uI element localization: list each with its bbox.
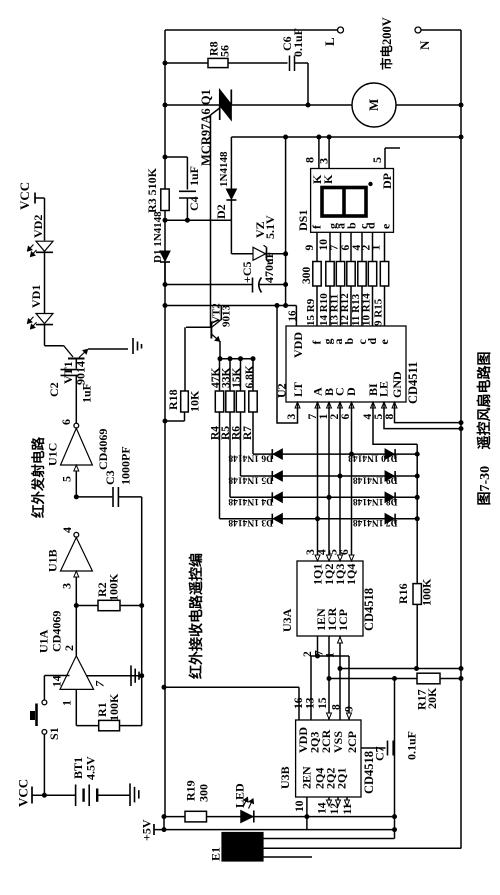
wire: clock line1 to right rail — [340, 668, 461, 670]
wire: D2 column — [230, 137, 232, 189]
leads from resistors to CD4511 with labels 15 R9 .. 9 R15 — [316, 286, 318, 326]
svg-text:8: 8 — [331, 704, 343, 710]
IC U3B CD4518 — [296, 720, 361, 797]
svg-text:5.1V: 5.1V — [263, 215, 277, 239]
wire: LE pin to right rail — [384, 402, 461, 429]
U3B bottom pins 2Q4 2Q2 2Q1 arrows with numbers 14 12 11 — [328, 797, 330, 800]
svg-text:12: 12 — [329, 803, 341, 815]
svg-text:e: e — [379, 223, 393, 229]
svg-text:1: 1 — [60, 700, 74, 706]
wire: E1 pin2 to right rail bottom — [263, 847, 461, 849]
svg-text:D1 1N4148: D1 1N4148 — [152, 211, 164, 263]
svg-text:d: d — [364, 222, 378, 229]
svg-text:56: 56 — [218, 45, 232, 57]
wire: 2EN pin down — [306, 797, 308, 830]
svg-text:10K: 10K — [188, 390, 202, 412]
resistor R5 33K — [229, 359, 231, 391]
svg-text:+C5: +C5 — [240, 261, 254, 283]
diode D2 1N4148 — [226, 189, 236, 199]
svg-text:D3 1N4148: D3 1N4148 — [228, 517, 273, 527]
wire: row D4/D8 — [230, 496, 417, 498]
svg-text:11: 11 — [342, 803, 354, 814]
wire: input columns A B C D down to U3A — [317, 402, 319, 561]
svg-text:CD4518: CD4518 — [362, 588, 376, 631]
svg-text:9013: 9013 — [221, 305, 233, 328]
node: px286 column top — [283, 135, 288, 140]
svg-text:VCC: VCC — [17, 182, 32, 210]
resistor R19 300 — [185, 811, 207, 822]
svg-text:LE: LE — [377, 381, 391, 397]
svg-text:1uF: 1uF — [80, 383, 94, 403]
svg-text:3: 3 — [286, 414, 298, 420]
wire: U1C input — [75, 465, 77, 497]
svg-text:300: 300 — [197, 784, 211, 802]
svg-text:470uF: 470uF — [262, 251, 276, 283]
svg-text:C2: C2 — [47, 382, 61, 397]
node: LT column junction — [275, 303, 280, 308]
svg-text:5: 5 — [370, 157, 384, 163]
IC U2 CD4511 — [286, 326, 406, 402]
wire: 1CP/VSS column — [339, 636, 341, 720]
ground (U1A pin7) — [130, 665, 132, 686]
wire: 2Q3-2CP jog — [311, 655, 349, 657]
svg-text:C4: C4 — [187, 196, 201, 211]
diode D9 1N4148 — [385, 471, 394, 481]
svg-text:D7 1N4148: D7 1N4148 — [353, 517, 398, 527]
resistor R8 56 — [208, 58, 228, 67]
LED VD1 — [36, 314, 53, 324]
wire: top wire to L terminal — [165, 29, 337, 31]
svg-text:VD1: VD1 — [29, 285, 43, 308]
svg-text:红外接收电路遥控编: 红外接收电路遥控编 — [188, 553, 205, 679]
wire: R3/C4 bottom wire — [165, 219, 231, 221]
node: C6 junction — [306, 103, 311, 108]
node: C5 to px286 column — [283, 282, 288, 287]
svg-text:14: 14 — [52, 675, 64, 687]
node: rail-motor junction — [459, 103, 464, 108]
terminal N — [415, 27, 421, 33]
svg-text:S1: S1 — [47, 727, 61, 740]
node: rail R18 junction — [163, 419, 168, 424]
svg-text:9 R15: 9 R15 — [373, 298, 385, 326]
wire: row D3/D7 — [220, 518, 418, 520]
svg-text:+5V: +5V — [140, 819, 154, 841]
ground (battery) — [129, 783, 131, 806]
zener diode VZ 5.1V — [253, 247, 266, 260]
wire: D2 to zener — [230, 220, 232, 254]
node: rail C5 wire — [163, 282, 168, 287]
svg-text:CD4069: CD4069 — [50, 611, 64, 652]
node: row to common — [415, 516, 420, 521]
svg-text:R18: R18 — [166, 389, 180, 410]
diode D7 1N4148 — [385, 514, 394, 524]
svg-text:VSS: VSS — [331, 731, 345, 753]
svg-text:VDD: VDD — [291, 332, 305, 358]
wire: Q1 anode wire — [165, 104, 220, 106]
svg-text:10: 10 — [294, 800, 306, 812]
svg-text:6: 6 — [339, 549, 351, 555]
node: row to common — [415, 474, 420, 479]
svg-text:N: N — [417, 40, 432, 50]
svg-text:2Q1: 2Q1 — [335, 768, 349, 789]
svg-text:VCC: VCC — [16, 779, 31, 807]
svg-text:图7-30: 图7-30 — [477, 466, 493, 506]
wire: BI pin to diode common — [373, 402, 417, 444]
svg-text:0.1uF: 0.1uF — [291, 28, 305, 57]
capacitor C6 0.1uF — [289, 56, 291, 72]
svg-text:7: 7 — [93, 680, 107, 687]
switch S1 — [42, 700, 47, 705]
wire: R8 branch — [165, 62, 208, 64]
wire: C4/R3 top wire — [165, 156, 187, 158]
wire: row D5/D9 — [241, 475, 418, 477]
node: row to column — [338, 474, 343, 479]
svg-text:14: 14 — [317, 802, 329, 814]
resistor R16 100K — [413, 584, 421, 605]
wire: GND pin to right rail — [395, 402, 462, 423]
svg-text:15 R9: 15 R9 — [305, 298, 317, 326]
svg-text:6: 6 — [340, 414, 352, 420]
svg-text:1CP: 1CP — [336, 609, 350, 631]
IR receiver module E1 — [222, 833, 263, 862]
svg-text:13: 13 — [305, 697, 317, 709]
svg-text:15K: 15K — [231, 368, 243, 389]
node: zener to px286 column — [283, 251, 288, 256]
svg-text:D8 1N4148: D8 1N4148 — [353, 496, 398, 506]
svg-text:16: 16 — [293, 697, 305, 709]
svg-text:6.8K: 6.8K — [244, 365, 256, 388]
svg-text:L: L — [322, 37, 337, 46]
diode D10 1N4148 — [385, 449, 394, 459]
svg-text:100K: 100K — [107, 693, 121, 721]
node: row to column — [327, 495, 332, 500]
inverter U1A CD4069 — [75, 606, 77, 656]
wire: VDD supply wire py305 — [165, 305, 296, 307]
wire: diode common column to R16 — [416, 444, 418, 583]
svg-text:遥控风扇电路图: 遥控风扇电路图 — [476, 352, 493, 450]
wire: 1EN pin down to jog — [317, 636, 319, 656]
display decimal point — [368, 182, 372, 186]
svg-text:2CP: 2CP — [345, 731, 359, 753]
diode D5 1N4148 — [273, 471, 282, 481]
svg-text:DS1: DS1 — [296, 210, 310, 231]
svg-text:D2: D2 — [214, 204, 228, 219]
wire: N to right rail — [421, 29, 461, 31]
svg-text:U3A: U3A — [280, 608, 294, 632]
wire: VT2 base wire — [186, 326, 211, 328]
node: display K pin 8 — [316, 135, 321, 140]
thyristor Q1 MCR97A6 (triac symbol) — [220, 90, 232, 105]
node: rail py220 — [163, 218, 168, 223]
wire: U1B input — [75, 571, 77, 606]
wire: E1 pin1 to C7 node — [263, 838, 395, 840]
svg-text:R7: R7 — [242, 426, 254, 440]
wire: +5V bottom wire B — [154, 829, 395, 831]
svg-text:300: 300 — [301, 267, 313, 285]
wire: Q1 gate — [211, 108, 220, 115]
svg-text:e: e — [377, 339, 391, 345]
svg-text:CD4069: CD4069 — [96, 429, 110, 470]
node: row to common — [415, 452, 420, 457]
wire: feedback column — [141, 497, 143, 726]
resistor R6 15K — [240, 359, 242, 391]
motor M — [352, 83, 396, 127]
wire: 1CR column to U3B 2CR — [328, 636, 330, 720]
wire: battery to ground — [97, 794, 130, 796]
svg-text:1: 1 — [371, 245, 383, 251]
node: display K pin 3 — [327, 135, 332, 140]
wire: row D6/D10 — [253, 453, 417, 455]
resistors R9-R15 300 ohm — [313, 262, 321, 287]
wire: motor to right rail — [396, 104, 461, 106]
wire: VCC to battery — [32, 794, 76, 796]
wire: U1A pin14 to S1 — [44, 675, 69, 677]
svg-text:D9 1N4148: D9 1N4148 — [353, 475, 398, 485]
svg-text:8: 8 — [303, 157, 317, 163]
wire: left +5V rail (top segment) — [164, 30, 166, 157]
svg-text:7: 7 — [329, 245, 341, 251]
svg-text:100K: 100K — [420, 578, 434, 606]
display bottom pin leads with numbers 9 10 7 6 4 2 1 — [316, 232, 318, 261]
svg-text:GND: GND — [390, 371, 404, 398]
wire: px286 column — [285, 137, 287, 306]
svg-text:16: 16 — [287, 310, 299, 322]
wire: LT pin to VDD wire — [277, 306, 298, 424]
svg-text:10 R14: 10 R14 — [361, 293, 373, 326]
wire: left rail bottom hook — [163, 817, 165, 830]
diode D6 1N4148 — [273, 449, 282, 459]
node: rail junction R8 wire — [163, 61, 168, 66]
svg-text:市电200V: 市电200V — [379, 17, 394, 70]
wire: CD4511 pin16 lead — [295, 306, 297, 327]
display pins K 8 3 and DP 5 — [318, 137, 320, 169]
diode D4 1N4148 — [273, 492, 282, 502]
diode D3 1N4148 — [273, 514, 282, 524]
wire: left rail middle segment — [164, 262, 166, 817]
svg-text:M: M — [366, 99, 381, 111]
wire: C5 branch — [165, 284, 252, 286]
svg-text:15: 15 — [317, 697, 329, 709]
terminal VCC (battery) — [31, 787, 33, 804]
resistor R17 20K — [417, 673, 440, 684]
svg-text:D5 1N4148: D5 1N4148 — [228, 475, 273, 485]
IC U3A CD4518 — [297, 561, 363, 636]
7-segment display DS1 — [311, 169, 394, 233]
wire: U1A input to R1 — [75, 689, 77, 725]
svg-text:R16: R16 — [396, 583, 410, 604]
svg-text:100K: 100K — [107, 573, 121, 601]
svg-text:2: 2 — [62, 645, 76, 651]
LED indicator — [241, 811, 253, 823]
svg-text:5: 5 — [328, 549, 340, 555]
node: rail py157 — [163, 155, 168, 160]
svg-text:1: 1 — [325, 652, 337, 658]
svg-text:D4 1N4148: D4 1N4148 — [228, 496, 273, 506]
battery BT1 4.5V — [75, 785, 77, 807]
svg-text:4: 4 — [60, 527, 74, 533]
svg-text:3: 3 — [60, 583, 74, 589]
capacitor C7 0.1uF — [361, 747, 386, 749]
resistor R2 100K — [76, 605, 98, 607]
svg-text:红外发射电路: 红外发射电路 — [30, 437, 46, 518]
svg-text:1000PF: 1000PF — [119, 446, 133, 485]
svg-text:1N4148: 1N4148 — [218, 151, 230, 187]
svg-text:3: 3 — [317, 158, 331, 164]
svg-text:R6: R6 — [231, 426, 243, 440]
capacitor C4 1uF — [179, 190, 196, 192]
wire: E1 pin3 stub — [263, 856, 312, 858]
node: C4 bottom — [185, 218, 190, 223]
capacitor C2 1uF — [75, 359, 77, 369]
svg-text:0.1uF: 0.1uF — [405, 731, 419, 760]
wire: +5V feed wire A with R19 and LED — [164, 816, 395, 818]
U3A top pin arrows and numbers 3 4 5 6 — [315, 555, 320, 561]
svg-text:DP: DP — [380, 173, 394, 189]
resistor R18 10K — [184, 327, 186, 391]
wire: U1A ground wire pin7 — [86, 675, 142, 677]
svg-text:9: 9 — [344, 706, 356, 712]
wire: reset line2 with R17 — [329, 678, 417, 680]
svg-text:C3: C3 — [103, 470, 117, 485]
svg-text:K: K — [321, 174, 335, 184]
svg-text:9: 9 — [304, 245, 316, 251]
svg-text:VD2: VD2 — [31, 215, 45, 238]
svg-text:LT: LT — [291, 382, 305, 397]
wire: C7 column — [394, 679, 396, 830]
node: row to column — [315, 516, 320, 521]
svg-text:U1B: U1B — [46, 549, 60, 572]
node: rail py305 — [163, 303, 168, 308]
svg-text:LED: LED — [233, 783, 247, 808]
node: px286 column bottom — [283, 303, 288, 308]
svg-text:U3B: U3B — [278, 766, 292, 789]
node: row to common — [415, 495, 420, 500]
svg-text:1uF: 1uF — [187, 166, 201, 186]
node: rail junction Q1 wire — [163, 103, 168, 108]
capacitor C5 470uF (polarized) — [252, 278, 254, 293]
resistor R3 510K (inline on rail) — [164, 157, 166, 189]
transistor VT2 9013 — [210, 322, 212, 339]
svg-text:3: 3 — [305, 549, 317, 555]
node: row to column — [349, 452, 354, 457]
terminal L — [338, 27, 344, 33]
svg-text:U1A: U1A — [37, 629, 51, 653]
svg-text:R19: R19 — [184, 780, 198, 801]
svg-text:C7: C7 — [373, 746, 387, 761]
wire: +5V to U3B VDD — [164, 686, 299, 688]
node: rail-display wire — [459, 135, 464, 140]
svg-text:E1: E1 — [209, 847, 223, 861]
terminal +5V — [153, 824, 155, 835]
svg-text:D: D — [344, 387, 358, 396]
wire: VT2 emitter row — [220, 358, 253, 360]
resistor R1 100K — [99, 720, 120, 730]
LED VD2 — [36, 241, 53, 251]
svg-text:5: 5 — [60, 476, 74, 482]
diode D1 1N4148 (inline on rail) — [164, 220, 166, 250]
inverter U1C CD4069 — [74, 423, 79, 428]
ground (VT1 emitter) — [132, 338, 134, 354]
terminal VCC (transmitter top) — [34, 193, 36, 204]
svg-text:6: 6 — [59, 419, 73, 425]
transistor VT1 9014 — [45, 345, 64, 347]
svg-text:1Q4: 1Q4 — [344, 564, 358, 585]
svg-text:20K: 20K — [425, 687, 439, 709]
capacitor C3 1000PF — [76, 496, 112, 498]
svg-text:U1C: U1C — [46, 443, 60, 466]
inverter U1B CD4069 — [74, 532, 79, 537]
svg-text:D10 1N4148: D10 1N4148 — [348, 453, 398, 463]
resistor R4 47K — [219, 359, 221, 391]
diode D8 1N4148 — [385, 492, 394, 502]
svg-text:2EN: 2EN — [300, 766, 314, 789]
CD4511 bottom pin leads with arrows and numbers — [295, 402, 300, 408]
svg-text:b: b — [342, 338, 356, 345]
svg-text:4.5V: 4.5V — [84, 756, 98, 780]
svg-text:D6 1N4148: D6 1N4148 — [228, 453, 273, 463]
wire: right rail — [460, 30, 462, 849]
display digit 8 — [322, 188, 366, 217]
svg-text:CD4511: CD4511 — [406, 362, 420, 404]
resistor R7 6.8K — [252, 359, 254, 391]
wire: display supply wire py137 — [231, 136, 461, 138]
svg-text:R3 510K: R3 510K — [145, 167, 159, 213]
